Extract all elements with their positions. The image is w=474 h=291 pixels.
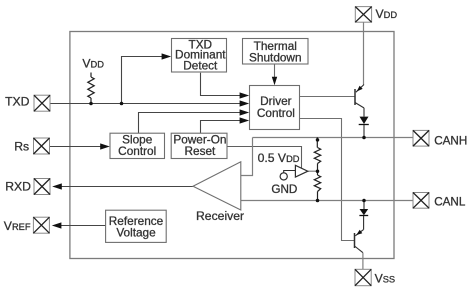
svg-text:RXD: RXD (5, 180, 31, 194)
svg-text:Receiver: Receiver (196, 209, 244, 223)
svg-text:GND: GND (271, 183, 297, 196)
svg-text:Voltage: Voltage (116, 226, 156, 240)
svg-text:Control: Control (118, 144, 156, 158)
svg-text:Reset: Reset (184, 144, 216, 158)
svg-text:VREF: VREF (4, 219, 31, 233)
svg-text:CANH: CANH (434, 135, 467, 148)
svg-text:Detect: Detect (183, 58, 218, 72)
svg-text:TXD: TXD (5, 94, 30, 108)
svg-text:CANL: CANL (434, 196, 466, 209)
svg-text:VDD: VDD (82, 56, 104, 70)
svg-text:Shutdown: Shutdown (249, 51, 301, 65)
svg-text:VSS: VSS (375, 272, 396, 286)
svg-text:VDD: VDD (376, 7, 398, 21)
svg-text:Rs: Rs (14, 140, 29, 154)
svg-text:0.5 VDD: 0.5 VDD (258, 151, 300, 165)
svg-text:Control: Control (257, 106, 295, 120)
